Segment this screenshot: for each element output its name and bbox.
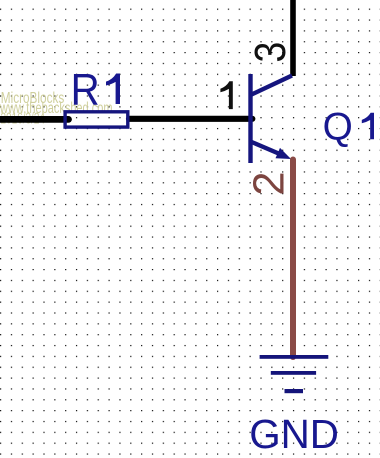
svg-text:2: 2 xyxy=(245,171,293,195)
svg-text:Q: Q xyxy=(323,105,353,148)
svg-text:GND: GND xyxy=(249,411,339,457)
svg-text:R: R xyxy=(71,66,100,115)
svg-text:3: 3 xyxy=(245,42,294,63)
